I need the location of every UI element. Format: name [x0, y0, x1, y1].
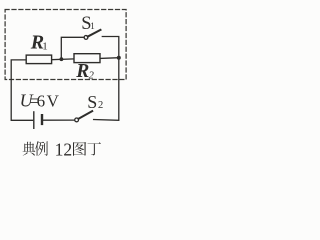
- caption: 图: [73, 142, 86, 156]
- resistor R1 body: [26, 55, 51, 64]
- dashed boundary box: [5, 10, 126, 80]
- wire: left branch from R1 down to battery: [11, 60, 32, 120]
- svg-text:2: 2: [98, 100, 103, 111]
- wire: S2 contact to bottom-right corner, up right side: [94, 37, 119, 121]
- svg-text:S: S: [87, 92, 97, 112]
- caption: 丁: [88, 142, 101, 155]
- switch S2 blade (open): [79, 111, 93, 119]
- caption: 典: [23, 142, 36, 156]
- svg-text:12: 12: [55, 139, 73, 159]
- svg-text:1: 1: [42, 41, 48, 53]
- wire: R2 right to right-side node: [100, 57, 119, 60]
- resistor R2 body: [74, 54, 100, 63]
- battery long plate (+): [33, 112, 35, 128]
- switch S1 pivot circle: [84, 36, 88, 40]
- node: junction dot left: [60, 57, 64, 61]
- switch S1 blade (open): [88, 30, 101, 37]
- svg-text:1: 1: [90, 21, 95, 31]
- wire: S1 left to branch node riser: [61, 37, 84, 59]
- svg-text:R: R: [75, 61, 89, 82]
- svg-text:V: V: [47, 92, 60, 111]
- wire: R1 right to node and on to R2: [52, 58, 74, 61]
- battery short plate (-): [41, 115, 43, 124]
- node: junction dot right: [117, 56, 121, 60]
- svg-text:6: 6: [37, 92, 46, 111]
- wire: battery to switch S2: [43, 119, 74, 121]
- caption: 例: [35, 141, 48, 156]
- switch S2 pivot circle: [75, 118, 79, 122]
- svg-text:2: 2: [89, 71, 95, 82]
